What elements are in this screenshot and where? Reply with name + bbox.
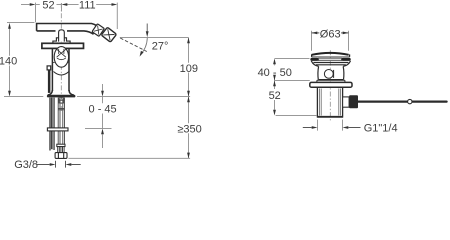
drain lever hole [324,70,333,79]
drain side port collar [343,97,350,107]
supply hose dark [51,98,53,150]
dimension 52 arrows [30,3,118,6]
faucet spout tube [37,24,97,35]
dimension 109 arrows [187,38,190,97]
faucet body top edge marks [53,61,69,63]
drain cap rim underline [312,56,350,58]
faucet aerator nut [101,27,116,42]
faucet cartridge dome arc [54,72,69,76]
drain tail pipe [317,87,342,116]
supply hoses [49,98,54,151]
drain dimension G1 1/4 arrows [312,126,349,129]
faucet handle arm cross lines [57,49,66,60]
drain lower flange [310,82,352,87]
svg-text:40 - 50: 40 - 50 [258,67,292,79]
svg-text:0 - 45: 0 - 45 [89,104,117,116]
svg-text:140: 140 [0,56,17,68]
threaded stud [58,98,64,145]
faucet handle front arm ellipse [54,47,68,68]
stud top fitting [59,98,64,103]
extension line left of spout [35,3,37,23]
faucet side tab square [47,66,51,70]
drain cap side edges [312,54,350,56]
angle 27 leader arrow [146,24,149,38]
faucet cross handle bar [42,43,84,48]
dimension G3/8 [37,161,81,168]
angle 27 arc arrowhead [140,51,144,57]
drain tail thread lines [319,89,340,116]
dimension 140 arrows [8,23,11,97]
hose end nut G3/8 [55,153,67,159]
svg-text:G1"1/4: G1"1/4 [364,123,398,135]
drain dimension diameter 63 [312,31,349,51]
drain dimension 40-50 [275,59,317,116]
water jet dashed line 27 degrees [120,38,147,52]
dimension 140 [7,23,35,92]
deck surface line [4,96,190,98]
hose thread section [58,147,64,153]
drain dimension 40-50 arrows [273,59,276,116]
svg-text:52: 52 [269,90,281,102]
faucet stem step collar [53,38,70,44]
dimension G3/8 arrows [50,163,72,166]
svg-text:Ø63: Ø63 [320,29,341,41]
drain cap ring [310,58,350,61]
svg-text:G3/8: G3/8 [14,159,38,170]
extension line spout tip [116,3,118,29]
dimension 0-45 arrows [101,91,104,135]
drain side port block [349,95,358,108]
angle 27 arc [140,38,147,55]
faucet side tab bar [48,70,51,93]
dimension 109 [188,38,190,97]
spout outlet reference line [120,37,189,39]
faucet body cylinder [52,49,69,91]
faucet base plate [47,95,76,98]
dimension 52 line [21,3,112,12]
drain tail bottom edge [317,116,343,118]
faucet handle stem [59,30,65,42]
drain barrel [318,66,344,79]
centerline drain axis [329,50,331,120]
drain plug cap [312,53,349,55]
centerline faucet axis [60,3,62,111]
drain dimension G1 1/4 [318,120,343,131]
svg-text:109: 109 [180,63,198,75]
svg-text:111: 111 [79,0,96,11]
dimension >=350 [188,97,190,159]
dimension >=350 arrows [187,97,190,159]
drain step [317,80,345,82]
pop-up rod [358,100,447,102]
drain lever hole line [333,70,335,78]
dimension 0-45 [85,84,112,148]
hose collar [57,144,65,146]
svg-text:27°: 27° [152,40,169,52]
faucet spout end piece [92,24,104,37]
clamp plate [47,128,68,131]
pop-up rod bead [408,99,412,103]
drain dimension diameter 63 arrows [312,32,349,35]
svg-text:≥350: ≥350 [177,123,201,135]
floor line [68,157,190,159]
drain upper cone [311,61,350,67]
faucet base flare [48,90,74,95]
svg-text:52: 52 [42,0,54,11]
